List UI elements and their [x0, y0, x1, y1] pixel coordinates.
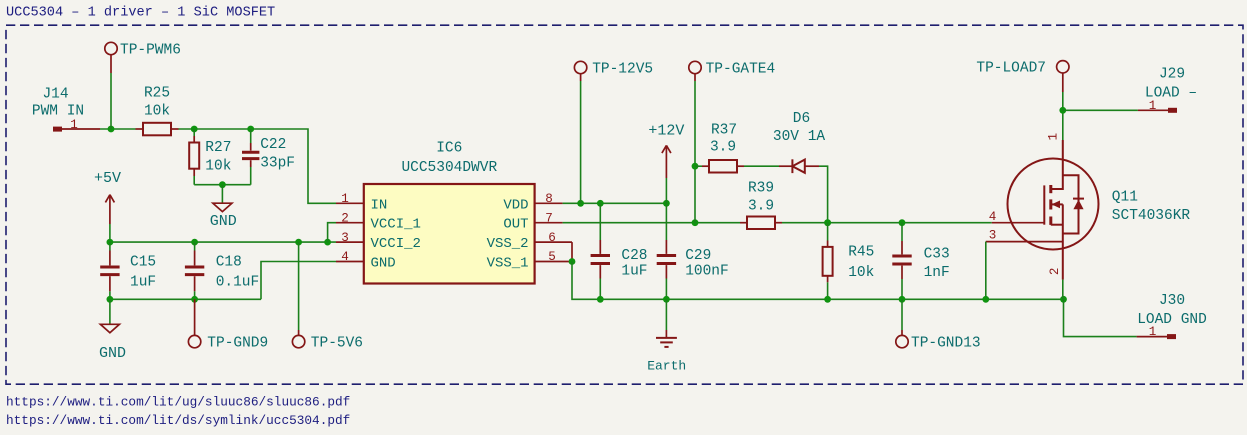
node junction kelvin — [982, 296, 989, 303]
svg-text:1: 1 — [70, 118, 78, 132]
node junction R37 branch — [692, 163, 699, 170]
svg-text:J14: J14 — [42, 87, 68, 103]
svg-text:GND: GND — [210, 213, 237, 230]
node junction C33 bottom — [899, 296, 906, 303]
svg-text:UCC5304 – 1 driver – 1 SiC MOS: UCC5304 – 1 driver – 1 SiC MOSFET — [6, 6, 275, 21]
wire right ground rail — [600, 298, 1063, 300]
capacitor C28 — [591, 203, 648, 299]
wire VDD net — [563, 202, 667, 204]
drain connection — [1051, 140, 1063, 189]
wire kelvin source to ground rail — [985, 242, 987, 300]
node junction D6/R39 — [824, 219, 831, 226]
node junction C29/Earth bottom — [663, 296, 670, 303]
svg-text:8: 8 — [545, 192, 553, 206]
test point TP-GND13 — [896, 299, 981, 351]
wire R39 to gate net — [782, 222, 992, 224]
svg-text:3: 3 — [989, 229, 997, 243]
svg-text:10k: 10k — [144, 103, 170, 119]
svg-text:33pF: 33pF — [260, 156, 295, 172]
svg-text:VSS_2: VSS_2 — [487, 236, 529, 252]
pin 7 OUT — [503, 211, 562, 232]
capacitor C22 — [242, 129, 295, 185]
resistor R39 — [740, 180, 782, 229]
test point TP-GND9 — [188, 299, 268, 351]
node junction C18 top — [191, 239, 198, 246]
source arrow — [1052, 201, 1061, 209]
pin 2 VCC1_1 — [336, 211, 421, 232]
svg-text:J29: J29 — [1159, 67, 1185, 83]
node junction C28 bottom — [597, 296, 604, 303]
power +12V — [648, 123, 684, 178]
connector J14 — [32, 87, 100, 132]
test point TP-12V5 — [574, 61, 653, 81]
svg-text:TP-LOAD7: TP-LOAD7 — [976, 61, 1046, 77]
node junction TP-12V5 — [577, 200, 584, 207]
svg-text:TP-GND9: TP-GND9 — [207, 335, 268, 351]
node junction GND arrow — [107, 296, 114, 303]
svg-text:https://www.ti.com/lit/ug/sluu: https://www.ti.com/lit/ug/sluuc86/sluuc8… — [6, 394, 350, 409]
wire R27/C22 bottom — [194, 184, 251, 186]
body diode — [1073, 200, 1083, 210]
svg-text:10k: 10k — [848, 265, 874, 281]
wire D6 down to OUT — [819, 166, 828, 223]
transistor Q11 (SiC MOSFET) — [1008, 140, 1191, 280]
svg-text:VDD: VDD — [503, 197, 528, 213]
svg-text:1uF: 1uF — [130, 275, 156, 291]
svg-text:TP-GND13: TP-GND13 — [911, 335, 981, 351]
ground Earth symbol — [647, 299, 686, 373]
svg-text:UCC5304DWVR: UCC5304DWVR — [401, 160, 497, 176]
svg-text:VSS_1: VSS_1 — [487, 256, 529, 272]
svg-text:TP-12V5: TP-12V5 — [592, 61, 653, 77]
svg-text:https://www.ti.com/lit/ds/syml: https://www.ti.com/lit/ds/symlink/ucc530… — [6, 413, 350, 428]
resistor R25 — [136, 86, 179, 136]
node junction R45 bottom — [824, 296, 831, 303]
wire TP-LOAD7 to drain — [1062, 92, 1064, 140]
svg-text:R25: R25 — [144, 86, 170, 102]
wire J14 to R25 — [100, 128, 136, 130]
svg-text:D6: D6 — [793, 111, 810, 127]
node junction TP-GND9 — [191, 296, 198, 303]
svg-text:LOAD GND: LOAD GND — [1137, 312, 1207, 328]
wire IC pin 4 to bottom rail — [261, 262, 336, 300]
node junction C15 top — [107, 239, 114, 246]
svg-text:SCT4036KR: SCT4036KR — [1112, 208, 1191, 224]
svg-text:100nF: 100nF — [685, 264, 729, 280]
connector J30 — [1137, 293, 1207, 339]
svg-text:TP-PWM6: TP-PWM6 — [120, 42, 181, 58]
wire source to J30 — [1064, 299, 1137, 336]
svg-text:1: 1 — [1046, 133, 1060, 141]
wire source down — [1062, 280, 1064, 300]
svg-text:7: 7 — [545, 211, 553, 225]
pin 8 VDD — [503, 192, 562, 213]
svg-text:5: 5 — [548, 250, 556, 264]
svg-text:R45: R45 — [848, 244, 874, 260]
capacitor C18 — [185, 242, 259, 299]
source connection — [1051, 224, 1063, 226]
node junction drain/J29 — [1059, 107, 1066, 114]
wire IC pin 2 drop — [328, 223, 336, 242]
svg-text:+12V: +12V — [648, 123, 684, 140]
node junction R45 top — [824, 219, 831, 226]
test point TP-5V6 — [292, 242, 363, 351]
svg-text:R37: R37 — [711, 123, 737, 139]
node junction C33 top — [899, 219, 906, 226]
wire left ground rail — [110, 298, 261, 300]
pin 1 IN — [336, 192, 387, 213]
svg-text:10k: 10k — [205, 159, 231, 175]
wire drain to J29 — [1063, 109, 1138, 111]
body diode branch — [1063, 175, 1079, 233]
node junction TP-5V6 branch — [295, 239, 302, 246]
svg-text:4: 4 — [989, 210, 997, 224]
wire TP-GATE4 down — [694, 81, 696, 223]
svg-text:GND: GND — [99, 345, 126, 362]
svg-text:C29: C29 — [685, 248, 711, 264]
resistor R27 — [189, 129, 231, 185]
wire R25 to corner into IC pin 1 — [179, 129, 337, 203]
node junction at TP-PWM6 column — [108, 126, 115, 133]
svg-text:1uF: 1uF — [621, 264, 647, 280]
power +5V — [94, 170, 121, 224]
node junction C29/+12V — [663, 200, 670, 207]
op-amp/driver IC6 body — [364, 141, 535, 284]
svg-text:2: 2 — [1048, 268, 1062, 276]
svg-text:6: 6 — [548, 231, 556, 245]
wire +5V rail (VCC1_2 net) — [110, 241, 336, 243]
resistor R45 — [823, 223, 875, 300]
node junction pin2 branch — [324, 239, 331, 246]
wire +12V down — [665, 178, 667, 203]
svg-text:1: 1 — [1149, 99, 1157, 113]
wire OUT net — [563, 222, 740, 224]
wire R37 to D6 — [744, 165, 779, 167]
wire VSS down to right ground rail — [572, 262, 600, 300]
pin 5 VSS_1 — [487, 250, 572, 271]
svg-text:R39: R39 — [748, 180, 774, 196]
capacitor C33 — [892, 223, 949, 300]
capacitor C29 — [657, 203, 729, 299]
node junction GND branch — [219, 181, 226, 188]
ground GND (under R27/C22) — [210, 185, 237, 230]
gate bar — [1043, 185, 1045, 224]
svg-text:J30: J30 — [1159, 293, 1185, 309]
ground GND (left) — [99, 299, 126, 362]
svg-text:R27: R27 — [205, 140, 231, 156]
node junction C22 top — [247, 126, 254, 133]
svg-text:3.9: 3.9 — [748, 198, 774, 214]
svg-text:3.9: 3.9 — [710, 140, 736, 156]
node junction TP-GATE4/OUT — [692, 219, 699, 226]
resistor R37 — [695, 123, 744, 173]
svg-text:3: 3 — [341, 231, 349, 245]
wire TP-PWM6 down to input net — [110, 73, 112, 129]
svg-text:+5V: +5V — [94, 170, 121, 187]
svg-text:OUT: OUT — [503, 217, 528, 233]
svg-text:TP-5V6: TP-5V6 — [311, 335, 363, 351]
svg-text:1: 1 — [341, 192, 349, 206]
pin 3 of Q11 (kelvin source) — [986, 229, 1063, 243]
svg-text:30V 1A: 30V 1A — [773, 129, 826, 145]
test point TP-GATE4 — [689, 61, 775, 81]
svg-text:C33: C33 — [924, 246, 950, 262]
node junction source/J30 — [1060, 296, 1067, 303]
pin 4 GND — [336, 250, 396, 271]
connector J29 — [1138, 67, 1197, 113]
svg-text:GND: GND — [371, 256, 396, 272]
svg-text:VCCI_2: VCCI_2 — [371, 236, 421, 252]
svg-text:TP-GATE4: TP-GATE4 — [706, 61, 776, 77]
node junction VSS — [569, 258, 576, 265]
pin 3 VCC1_2 — [336, 231, 421, 252]
svg-text:C28: C28 — [621, 248, 647, 264]
channel segments — [1049, 185, 1052, 193]
diode D6 — [773, 111, 826, 173]
node junction C28 top — [597, 200, 604, 207]
svg-text:IN: IN — [371, 197, 388, 213]
svg-text:C18: C18 — [216, 255, 242, 271]
svg-text:Q11: Q11 — [1112, 189, 1138, 205]
pin 6 VSS_2 — [487, 231, 572, 262]
svg-text:C22: C22 — [260, 137, 286, 153]
test point TP-PWM6 — [105, 42, 181, 73]
test point TP-LOAD7 — [976, 61, 1069, 93]
wire +5V down to rail — [109, 224, 111, 242]
svg-text:VCCI_1: VCCI_1 — [371, 217, 421, 233]
capacitor C15 — [100, 242, 156, 299]
svg-text:0.1uF: 0.1uF — [216, 275, 260, 291]
svg-text:2: 2 — [341, 211, 349, 225]
svg-text:IC6: IC6 — [436, 141, 462, 157]
svg-text:1nF: 1nF — [924, 265, 950, 281]
svg-text:4: 4 — [341, 250, 349, 264]
pin 4 of Q11 (gate) — [989, 210, 1045, 224]
svg-text:C15: C15 — [130, 255, 156, 271]
svg-text:Earth: Earth — [647, 358, 686, 373]
node junction R27 top — [191, 126, 198, 133]
wire TP-12V5 down — [580, 81, 582, 203]
svg-text:1: 1 — [1149, 325, 1157, 339]
